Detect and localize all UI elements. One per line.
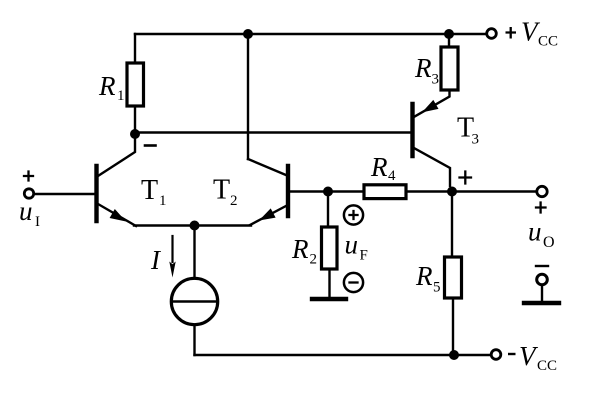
circled minus uF [344, 273, 363, 292]
svg-text:u: u [345, 230, 359, 260]
svg-text:1: 1 [117, 88, 125, 104]
label +Vcc [506, 27, 517, 39]
resistor R2 [322, 227, 338, 269]
wire input to T1 base [34, 193, 95, 195]
transistor T2 [286, 166, 290, 216]
wire current source to bottom rail [193, 325, 195, 356]
wire node to R4 [328, 190, 364, 192]
svg-text:3: 3 [432, 72, 440, 88]
wire R4 to output node [406, 190, 452, 192]
minus sign at T1 collector [145, 144, 156, 147]
svg-text:O: O [543, 234, 555, 251]
node emitters [190, 221, 200, 231]
terminal output return ground [536, 265, 548, 267]
wire top rail [135, 33, 486, 35]
svg-text:R: R [98, 71, 116, 101]
svg-text:CC: CC [538, 34, 558, 50]
wire R2 bottom [328, 269, 330, 297]
node feedback [323, 187, 333, 197]
svg-text:4: 4 [388, 168, 396, 184]
terminal +Vcc [487, 29, 497, 39]
node junction top center [243, 29, 253, 39]
transistor T1 [94, 166, 98, 221]
wire T1 collector [98, 134, 135, 176]
svg-text:R: R [415, 261, 433, 291]
resistor R1 [127, 63, 144, 106]
wire R5 bottom [452, 298, 454, 355]
transistor T3 [410, 104, 414, 156]
wire T2 base [289, 190, 328, 192]
svg-text:F: F [360, 248, 368, 264]
wire R2 top [327, 192, 329, 228]
label plus below output terminal [536, 203, 546, 213]
wire T2 collector diagonal [248, 159, 286, 175]
wire node to current source [193, 226, 195, 279]
wire output node to R5 [451, 192, 453, 258]
svg-text:u: u [19, 196, 33, 226]
node bottom rail [449, 350, 459, 360]
wire R1 bottom [134, 106, 136, 134]
node junction R3 top [444, 29, 454, 39]
terminal -Vcc [491, 350, 501, 360]
svg-text:2: 2 [230, 193, 238, 209]
svg-text:R: R [414, 53, 432, 83]
wire base line to T3 [135, 131, 411, 133]
terminal input [24, 189, 33, 198]
svg-text:T: T [213, 175, 230, 206]
wire R3 to T3 emitter [413, 90, 450, 118]
resistor R3 [441, 47, 458, 90]
wire emitters horizontal [134, 224, 251, 226]
ground under R2 [312, 297, 346, 301]
label -Vcc [508, 353, 516, 355]
svg-text:u: u [528, 217, 542, 247]
label plus at input [24, 172, 33, 181]
svg-text:I: I [35, 214, 40, 230]
wire R3 top [448, 34, 450, 47]
wire bottom rail [195, 354, 491, 356]
svg-text:5: 5 [433, 280, 441, 296]
resistor R4 [364, 185, 406, 199]
wire output [452, 190, 536, 192]
arrow current I [171, 236, 173, 262]
node T1 collector [130, 129, 140, 139]
svg-text:CC: CC [537, 358, 557, 374]
svg-text:3: 3 [472, 132, 480, 148]
resistor R5 [445, 257, 462, 298]
circled plus uF [344, 205, 363, 224]
svg-text:T: T [141, 175, 158, 206]
current source I [171, 278, 217, 324]
wire center vertical (T2 collector to rail) [247, 34, 249, 159]
svg-text:R: R [291, 234, 309, 264]
terminal output [537, 186, 547, 196]
label plus at output node [460, 172, 472, 184]
svg-text:1: 1 [159, 193, 167, 209]
wire R1 top [134, 34, 136, 63]
svg-text:2: 2 [310, 252, 318, 268]
node output [447, 187, 457, 197]
svg-text:R: R [370, 152, 388, 182]
